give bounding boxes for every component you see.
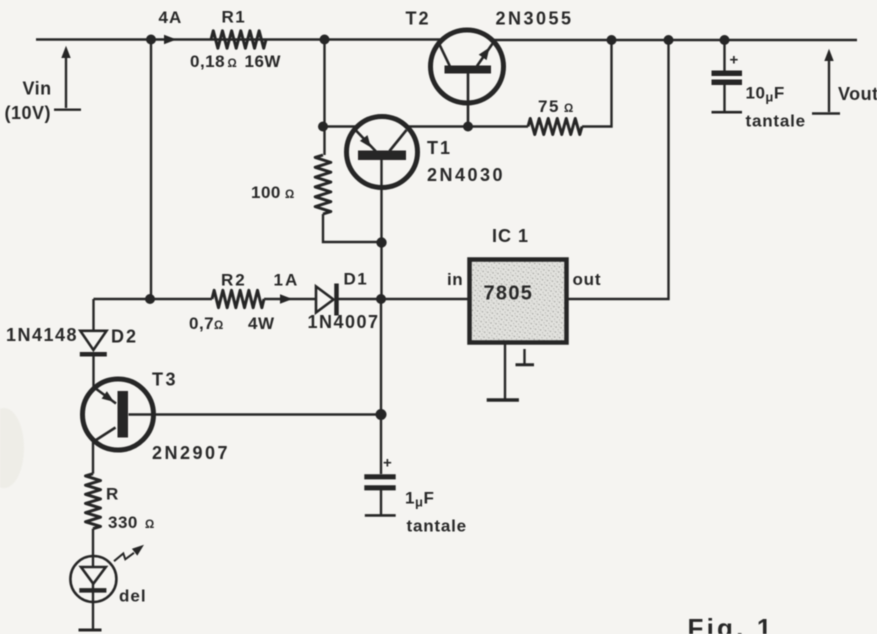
svg-text:Ω: Ω (228, 58, 237, 70)
svg-text:+: + (383, 455, 392, 472)
svg-text:Ω: Ω (145, 519, 154, 531)
svg-text:D1: D1 (344, 270, 369, 289)
svg-text:IC 1: IC 1 (492, 226, 529, 246)
svg-text:2N2907: 2N2907 (152, 443, 230, 463)
svg-text:4W: 4W (248, 314, 275, 333)
svg-text:Vin: Vin (23, 79, 52, 99)
svg-text:Ω: Ω (564, 103, 573, 115)
svg-text:D2: D2 (111, 327, 138, 347)
svg-text:T3: T3 (152, 370, 178, 390)
svg-text:T2: T2 (406, 9, 431, 29)
svg-text:100: 100 (251, 183, 281, 202)
svg-text:Vout: Vout (838, 84, 877, 104)
svg-text:in: in (447, 270, 463, 289)
svg-text:1N4007: 1N4007 (308, 312, 380, 332)
svg-text:7805: 7805 (484, 283, 534, 305)
svg-text:tantale: tantale (746, 112, 806, 131)
svg-text:1μF: 1μF (405, 489, 434, 510)
svg-text:0,7: 0,7 (189, 314, 214, 333)
svg-text:del: del (119, 587, 147, 606)
svg-text:R: R (106, 485, 119, 504)
svg-text:out: out (573, 270, 602, 289)
svg-text:0,18: 0,18 (190, 52, 225, 71)
svg-text:tantale: tantale (407, 517, 467, 536)
svg-text:R1: R1 (222, 8, 247, 27)
svg-text:T1: T1 (427, 138, 452, 158)
svg-text:Ω: Ω (285, 189, 294, 201)
svg-text:2N4030: 2N4030 (427, 165, 505, 185)
svg-text:75: 75 (538, 97, 560, 116)
svg-text:R2: R2 (221, 271, 247, 290)
svg-text:(10V): (10V) (5, 103, 52, 123)
svg-text:1A: 1A (274, 271, 300, 290)
svg-text:2N3055: 2N3055 (496, 9, 574, 29)
svg-text:1N4148: 1N4148 (6, 325, 78, 345)
svg-text:10μF: 10μF (746, 84, 785, 105)
svg-text:Ω: Ω (214, 320, 223, 332)
svg-text:+: + (730, 52, 739, 69)
svg-text:4A: 4A (159, 8, 183, 27)
svg-text:330: 330 (108, 513, 138, 532)
svg-text:16W: 16W (245, 52, 282, 71)
svg-text:Fig. 1: Fig. 1 (688, 613, 775, 634)
